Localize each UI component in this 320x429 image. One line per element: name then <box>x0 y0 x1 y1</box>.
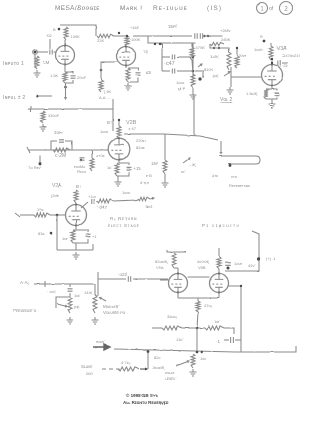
svg-text:Rᴇ-ɪᴜᴜᴜᴇ: Rᴇ-ɪᴜᴜᴜᴇ <box>153 5 188 12</box>
svg-text:100K: 100K <box>131 37 141 42</box>
svg-text:(ᴍ): (ᴍ) <box>74 304 80 309</box>
resistor R31 350K <box>162 326 182 330</box>
resistor R11 mid <box>227 52 231 70</box>
wire ladder rung2 right <box>177 70 193 72</box>
svg-text:(IS): (IS) <box>207 5 222 12</box>
capacitor C9 bypass V2B <box>127 167 132 169</box>
wire V3A bypass top2 <box>272 89 277 91</box>
svg-text:1.5ᴋҖ: 1.5ᴋҖ <box>246 91 258 96</box>
wire V2B cathode down <box>118 159 120 163</box>
resistor R7 1.5K cathode V1B <box>99 80 103 92</box>
wire ladder rung1 <box>162 56 170 58</box>
capacitor C14 10uF <box>225 263 231 266</box>
wire tone stack left mid <box>192 60 193 74</box>
resistor R9 100K MP <box>191 74 195 88</box>
wire ladder rung2 <box>162 70 170 72</box>
capacitor C11 from rev <box>80 158 85 160</box>
resistor R19 2.2M <box>53 148 70 152</box>
svg-text:Iɴᴘᴜʟ ± 2: Iɴᴘᴜʟ ± 2 <box>3 95 26 101</box>
svg-text:ᴇʟᴇᴄᴛ Sᴛᴀɢᴇ: ᴇʟᴇᴄᴛ Sᴛᴀɢᴇ <box>108 223 140 228</box>
resistor R6 250K <box>210 42 224 45</box>
wire V2B bypass top <box>119 163 129 165</box>
wire V1B cathode left <box>101 62 117 80</box>
resistor R1 1M <box>35 56 39 69</box>
svg-text:1ᴄᴄᴋ: 1ᴄᴄᴋ <box>122 190 130 195</box>
junction tone feed a <box>154 43 156 45</box>
svg-text:25ᴘf: 25ᴘf <box>168 24 177 29</box>
node from rev <box>80 159 82 161</box>
capacitor grid C1 <box>50 50 52 55</box>
svg-text:V5B: V5B <box>198 265 206 270</box>
svg-text:ᴏ·47: ᴏ·47 <box>128 126 137 131</box>
wire R31 to R32 <box>182 327 205 329</box>
svg-text:1ᴜғ: 1ᴜғ <box>62 236 68 241</box>
wire V2A bottom join <box>57 249 93 251</box>
wire tone stack left vertical <box>191 43 193 47</box>
capacitor C16 .022 <box>128 276 130 282</box>
page number circle 1 <box>257 3 268 14</box>
wire slave arrow <box>140 368 147 370</box>
wire V5B out right <box>229 286 242 352</box>
wire V5B cathode <box>218 293 220 299</box>
svg-text:+265ᴠ: +265ᴠ <box>220 28 231 33</box>
triode V2A <box>66 203 87 226</box>
wire V1A cathode to lower rail <box>64 83 66 99</box>
svg-text:Sʟᴀᴠᴇ: Sʟᴀᴠᴇ <box>81 364 93 369</box>
svg-text:1ᴍˉ: 1ᴍˉ <box>214 319 221 324</box>
resistor R28 470 tail <box>196 301 200 312</box>
svg-text:V3A: V3A <box>277 46 287 52</box>
wire V2B right branch <box>164 134 166 160</box>
junction bottom rail b <box>201 351 204 354</box>
wire bypass V1B bottom <box>128 78 138 83</box>
svg-text:M·P: M·P <box>178 86 186 91</box>
potentiometer master wiper <box>100 297 107 301</box>
svg-text:ᴏᴜᴛ: ᴏᴜᴛ <box>86 371 93 376</box>
wire slave dashes <box>102 368 120 370</box>
wire cathode bypass top <box>65 72 73 74</box>
svg-text:Rᵥ Rᴇᴛᴜʀɴ: Rᵥ Rᴇᴛᴜʀɴ <box>110 216 137 221</box>
wire wiper branch <box>195 71 203 78</box>
node B+ V1A <box>58 28 61 31</box>
svg-text:4·ᴛᴜғ: 4·ᴛᴜғ <box>140 180 150 185</box>
svg-text:ᴇ·B: ᴇ·B <box>146 173 152 178</box>
junction cap dark <box>227 267 230 270</box>
svg-text:+15: +15 <box>133 166 141 171</box>
wire out mid <box>113 200 138 201</box>
wire PI input left <box>97 272 99 296</box>
wire vol2 down <box>230 67 232 87</box>
triode V1A <box>56 44 75 65</box>
svg-text:Rᴇᴠᴜ: Rᴇᴠᴜ <box>77 169 86 174</box>
svg-text:ᴋᴛˉ: ᴋᴛˉ <box>181 169 187 174</box>
capacitor C17 .1 <box>231 337 234 343</box>
wire V5B plate stem <box>218 269 220 274</box>
capacitor C13 bypass V2A <box>86 234 91 236</box>
wire V5A plate top <box>174 267 178 269</box>
resistor R17 1M <box>163 160 167 174</box>
svg-text:250K: 250K <box>221 37 231 42</box>
potentiometer wiper dark mark <box>198 77 201 80</box>
resistor R2 100K plate V1A <box>64 27 68 40</box>
resistor R12 bass <box>235 56 239 68</box>
svg-text:·ᴄ47: ·ᴄ47 <box>164 61 175 67</box>
wire V1B plate coupling <box>133 35 192 37</box>
resistor R5 1.5K cathode V1A <box>63 72 67 83</box>
svg-text:4ᴛᴋ: 4ᴛᴋ <box>212 173 218 178</box>
capacitor C6 .047 a <box>172 55 174 60</box>
resistor R34 100 out <box>191 354 195 368</box>
wire vol2 to V3A grid <box>231 76 262 78</box>
junction ladder rung1 <box>192 56 195 59</box>
resistor R4 100K plate V1B <box>125 36 129 47</box>
svg-text:A.A.→: A.A.→ <box>99 95 111 100</box>
resistor R27 100K plate <box>217 257 221 269</box>
wire reverb arrow down <box>220 141 222 154</box>
wire V5 cathode join <box>178 297 219 299</box>
wire input2 stub <box>36 95 52 97</box>
svg-text:VᴏʟᴜMᴇ·ᴘᴏ: VᴏʟᴜMᴇ·ᴘᴏ <box>103 310 126 315</box>
wire V2B bypass bottom <box>117 172 129 176</box>
junction V2A grid <box>56 214 59 217</box>
junction V1B cathode <box>100 69 103 72</box>
resistor R15 330K <box>41 111 45 123</box>
wire bottom rail <box>114 346 296 352</box>
input jack J1 <box>33 50 38 55</box>
svg-text:· ᴘᴏ1: · ᴘᴏ1 <box>47 289 57 294</box>
wire tail to network <box>197 312 198 328</box>
junction tone b <box>218 47 220 49</box>
wire V2B plate out <box>124 134 200 136</box>
wire tone feed top <box>148 36 196 43</box>
svg-text:⊇47#x2192;47: ⊇47#x2192;47 <box>282 53 300 58</box>
wire R32 right <box>224 328 234 334</box>
svg-text:22K: 22K <box>97 38 104 43</box>
node V2B plate top <box>118 119 120 121</box>
wire x197 down <box>196 328 198 352</box>
svg-text:5ᴇ3: 5ᴇ3 <box>146 204 153 209</box>
wire V1B cathode down <box>125 66 127 69</box>
svg-text:Mᴀᴜᴛᴇʀˉ: Mᴀᴜᴛᴇʀˉ <box>103 304 120 309</box>
resistor R16 100K plate V2B <box>117 126 121 139</box>
resistor R29 presence pot <box>68 297 72 313</box>
svg-text:1ᴏᴜғ: 1ᴏᴜғ <box>234 261 243 266</box>
svg-text:ᴘᴜʟʟᴇ: ᴘᴜʟʟᴇ <box>165 370 175 375</box>
resistor R33 4.7K <box>118 367 139 371</box>
svg-text:(+) .1: (+) .1 <box>266 256 276 261</box>
svg-text:25ᴏᴋҖ: 25ᴏᴋҖ <box>152 365 165 370</box>
wire R9 to ground <box>192 88 194 92</box>
junction after caps a <box>203 35 205 37</box>
junction x197 <box>196 327 199 330</box>
svg-text:A·A₀: A·A₀ <box>20 280 30 285</box>
junction V3A plate a <box>271 58 273 60</box>
resistor R18 cathode V2B <box>115 163 119 176</box>
capacitor C18 V3A out <box>278 61 280 66</box>
svg-text:470K: 470K <box>196 45 206 50</box>
resistor R13 100K V3A <box>269 46 273 60</box>
wire V5A out left <box>160 279 169 281</box>
svg-text:ʟᴇᴠᴇʟˉ: ʟᴇᴠᴇʟˉ <box>165 376 177 381</box>
ground right presence <box>92 317 99 324</box>
capacitor C4 series <box>200 33 202 39</box>
wire V3A bypass top <box>266 88 272 90</box>
svg-text:+165: +165 <box>130 25 140 30</box>
wire cathode bypass bottom <box>65 80 73 83</box>
wire PI grid link <box>225 270 259 272</box>
svg-text:Pʀᴇᴜᴇɴᴄᴇˉᴏ: Pʀᴇᴜᴇɴᴄᴇˉᴏ <box>13 308 37 313</box>
svg-text:47ᴜ₀: 47ᴜ₀ <box>204 303 213 308</box>
svg-text:13ᴄˉ: 13ᴄˉ <box>176 337 184 342</box>
wire bypass V1B top <box>128 68 138 71</box>
junction reverb loop <box>229 164 232 167</box>
wire V3A out cap <box>282 62 288 64</box>
wire V2A cath box top <box>73 230 88 232</box>
resistor R30 right presence <box>93 295 97 313</box>
ground V2A <box>73 252 80 259</box>
svg-text:42ᴠˉ: 42ᴠˉ <box>248 263 256 268</box>
wire PI input horiz <box>98 278 126 280</box>
svg-text:15ᴋ: 15ᴋ <box>37 207 43 212</box>
resistor R26 820K plate <box>172 253 176 268</box>
triode V1B <box>117 45 136 66</box>
wire V3A cathode down <box>271 86 273 90</box>
wire ladder rung1 right <box>177 56 193 58</box>
junction ladder rung2 <box>192 70 195 73</box>
junction V1A cathode bottom <box>64 86 67 89</box>
wire x113 down <box>112 109 114 131</box>
capacitor C2 bypass V1A <box>71 76 76 78</box>
svg-text:4·7ᴋ₀: 4·7ᴋ₀ <box>121 360 131 365</box>
svg-text:470ᴋ: 470ᴋ <box>96 153 105 158</box>
svg-text:’·047: ’·047 <box>97 205 108 210</box>
ground under 330K <box>40 124 47 131</box>
wire from rev branch <box>91 150 93 158</box>
node B+ V3A <box>263 40 266 43</box>
svg-text:B: B <box>260 34 263 39</box>
wire C1 label tick <box>49 39 51 49</box>
svg-text:83ᴄ: 83ᴄ <box>38 231 44 236</box>
svg-text:82ᴏᴋҖ: 82ᴏᴋҖ <box>155 259 168 264</box>
potentiometer presence wiper <box>57 304 67 307</box>
wire presence vertical <box>69 284 71 287</box>
wire V3A cathode gnd stem <box>271 99 273 101</box>
svg-text:(2ᴏᴋ: (2ᴏᴋ <box>51 193 59 198</box>
svg-text:Aʟʟ Rɪɢʜᴛᴜ Rᴇᴜᴇʀᴠᴇᴅ: Aʟʟ Rɪɢʜᴛᴜ Rᴇᴜᴇʀᴠᴇᴅ <box>123 400 169 405</box>
svg-text:of: of <box>269 6 274 12</box>
wire V2A cathode stem <box>75 226 77 231</box>
capacitor C5 bypass V1B <box>136 73 141 75</box>
svg-text:82ᴏᴋ: 82ᴏᴋ <box>136 145 145 150</box>
capacitor C3 25pf <box>195 33 197 39</box>
triode V5B <box>210 272 229 293</box>
wire V2A plate stem <box>75 203 77 205</box>
svg-text:·02: ·02 <box>46 33 53 38</box>
svg-text:35ᴏᴄ₀: 35ᴏᴄ₀ <box>167 314 178 319</box>
junction tone a <box>213 47 215 49</box>
wire right presence stem <box>94 284 96 295</box>
resistor R23 100K <box>97 199 113 203</box>
input jack J1 tip <box>34 51 37 54</box>
svg-text:MESA/Bᴏᴏɢɪᴇ: MESA/Bᴏᴏɢɪᴇ <box>55 5 100 12</box>
svg-text:82ᴄ: 82ᴄ <box>154 355 160 360</box>
svg-text:100K: 100K <box>71 34 81 39</box>
wire B+ rail top <box>60 25 96 36</box>
wire V5A cathode <box>177 293 179 299</box>
potentiometer wiper treble <box>198 64 202 67</box>
wire feedback loop right <box>65 141 72 150</box>
wire V2A cath box bottom <box>73 239 88 243</box>
potentiometer level wiper <box>176 361 189 366</box>
page number circle 2 <box>280 2 293 15</box>
svg-text:1.5K: 1.5K <box>103 89 112 94</box>
svg-text:Rᴇᴠᴇʀᴇᴛᴀɴᴋ: Rᴇᴠᴇʀᴇᴛᴀɴᴋ <box>229 183 250 188</box>
wire cap left <box>224 339 229 341</box>
wire V5 top rail <box>167 250 186 252</box>
svg-text:ʜɪɢʜˉ: ʜɪɢʜˉ <box>96 339 106 344</box>
svg-text:330ᴜF: 330ᴜF <box>48 113 60 118</box>
svg-text:Iɴᴘᴜᴛᴏ 1: Iɴᴘᴜᴛᴏ 1 <box>3 61 24 67</box>
wire to reverb send <box>39 155 41 164</box>
svg-text:→Җ: →Җ <box>188 162 196 167</box>
svg-text:Tᴏ Rᴇᴠˉ: Tᴏ Rᴇᴠˉ <box>28 165 43 170</box>
wire slave up <box>147 351 149 369</box>
wire PI right vertical <box>252 231 259 271</box>
wire V3A bypass bottom <box>266 97 277 99</box>
svg-text:+1: +1 <box>92 234 97 239</box>
junction 83K <box>50 232 53 235</box>
svg-text:1ᴍˉ: 1ᴍˉ <box>74 293 81 298</box>
junction slave <box>147 350 150 353</box>
wire V2A cath to bottom <box>75 243 77 250</box>
resistor R20 from rev <box>90 158 94 171</box>
ground presence <box>67 317 74 324</box>
ground under R1 <box>34 70 41 77</box>
ground ladder <box>190 92 197 99</box>
svg-text:·1: ·1 <box>216 339 220 344</box>
resistor R10 470K treble <box>190 47 194 60</box>
junction bass top <box>236 47 238 49</box>
svg-text:$10K: $10K <box>204 67 214 72</box>
wire V2B plate top <box>118 120 120 126</box>
svg-text:V5A: V5A <box>156 265 164 270</box>
wire V5A plate stem <box>177 268 179 274</box>
junction V5B out <box>240 285 242 287</box>
svg-text:1ᴄᴄK: 1ᴄᴄK <box>210 54 219 59</box>
svg-text:(ᴍ): (ᴍ) <box>213 73 219 78</box>
wire V5 grid bridge <box>188 276 210 278</box>
svg-text:20ᴜF: 20ᴜF <box>77 75 87 80</box>
wire rail left mark <box>27 147 30 153</box>
wire out arrow <box>150 197 154 199</box>
wire AA tick <box>44 281 46 287</box>
wire tone stack mid down <box>193 95 195 136</box>
svg-text:1ᴄᴄᴋ: 1ᴄᴄᴋ <box>100 129 108 134</box>
wire V1A plate up <box>64 40 66 46</box>
svg-text:V2A: V2A <box>52 183 62 189</box>
wire ladder left <box>161 43 163 71</box>
svg-text:1ᴄᴄᴋ: 1ᴄᴄᴋ <box>176 80 184 85</box>
resistor R32 1M <box>205 326 224 330</box>
wire V2A grid mark <box>15 213 20 217</box>
wire row2 upper rail <box>28 108 113 110</box>
wire V5 cath stem <box>197 298 199 301</box>
wire row2 rail tick <box>30 106 32 112</box>
wire cap to x241 <box>235 339 241 341</box>
wire PI input to grid <box>133 278 168 280</box>
ground V1B cathode <box>125 83 132 90</box>
svg-text:B↑: B↑ <box>107 120 112 125</box>
ground vol2 <box>227 87 234 94</box>
junction V1B plate node <box>126 35 128 37</box>
wire presence loop <box>56 297 70 308</box>
svg-text:2ᴏᴘғ: 2ᴏᴘғ <box>54 130 63 135</box>
wire left of R31 <box>152 327 162 329</box>
reverb cable loop <box>219 156 260 164</box>
wire V2B cathode gnd stem <box>117 176 119 179</box>
junction after caps b <box>207 35 209 37</box>
wire jack down to input2 <box>34 55 36 69</box>
svg-text:Pɪ ᴄɪʀᴄᴜɪᴛᴜ: Pɪ ᴄɪʀᴄᴜɪᴛᴜ <box>202 223 240 228</box>
wire caps to slope <box>204 35 222 37</box>
wire to reverb driver <box>200 136 218 140</box>
svg-text:ᴄ·2M: ᴄ·2M <box>55 153 66 159</box>
wire tone mid link <box>210 44 222 48</box>
svg-text:B: B <box>53 27 56 32</box>
wire V5B top stem <box>218 248 220 257</box>
node V1B B+ <box>118 32 120 34</box>
svg-text:≤5: ≤5 <box>146 70 151 75</box>
resistor R21 120K plate V2A <box>74 190 78 203</box>
wire feedback loop <box>51 141 57 150</box>
ground V3A <box>269 101 276 108</box>
resistor R14 1.5K V3A <box>264 89 268 99</box>
wire V2A grid wire <box>20 214 34 216</box>
wire grid to tube <box>50 214 65 216</box>
ground output <box>190 369 197 376</box>
wire right hook <box>92 244 94 250</box>
junction V3A plate b <box>271 62 273 64</box>
svg-text:+1ᴏᴛ: +1ᴏᴛ <box>88 194 97 199</box>
capacitor C15 presence <box>68 289 73 291</box>
wire presence vertical2 <box>69 293 71 297</box>
triode V5A <box>169 272 188 293</box>
svg-text:1M: 1M <box>43 60 50 65</box>
svg-text:→·22: →·22 <box>278 63 289 68</box>
triode V3A <box>262 63 283 86</box>
junction bottom rail a <box>196 351 199 354</box>
wire V2A left branch <box>56 215 58 250</box>
wire ladder right vertical <box>192 43 194 79</box>
arrow marker high <box>93 344 110 350</box>
svg-text:220ᴋ₀: 220ᴋ₀ <box>136 138 147 143</box>
svg-text:ᴄᴛᴏ: ᴄᴛᴏ <box>231 174 238 179</box>
wire V3A B+ tick <box>270 43 272 46</box>
node reverb send <box>39 163 42 166</box>
svg-text:7B: 7B <box>143 49 148 54</box>
svg-text:Mᴀʀᴋ I: Mᴀʀᴋ I <box>120 5 143 12</box>
resistor R24 <box>138 197 150 201</box>
svg-text:Vᴏʟ 2: Vᴏʟ 2 <box>220 97 233 103</box>
svg-text:B↑: B↑ <box>76 184 81 189</box>
capacitor C12 .047 out <box>92 199 94 204</box>
svg-text:1ᴄᴄK: 1ᴄᴄK <box>254 47 263 52</box>
wire V3A plate up <box>271 60 273 65</box>
wire rail right down <box>112 99 114 109</box>
resistor R25 cathode V2A <box>71 230 75 243</box>
junction tone feed b <box>159 43 161 45</box>
capacitor C7 .047 b <box>172 69 174 74</box>
